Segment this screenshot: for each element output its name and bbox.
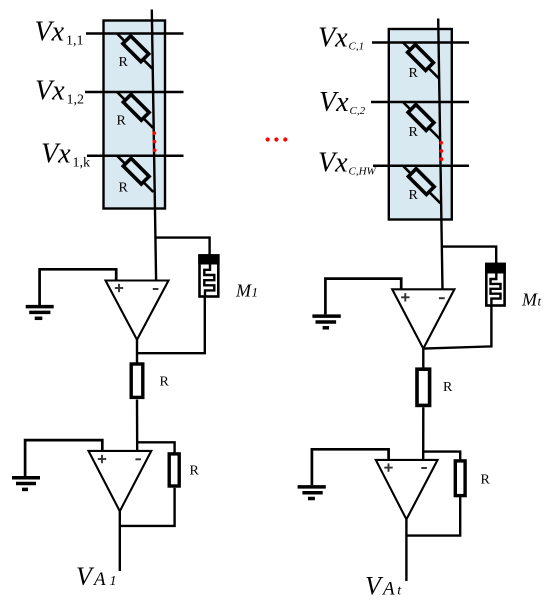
wire: op-amp U1 plus input to ground	[40, 269, 117, 305]
label M1	[235, 281, 258, 301]
svg-text:1,1: 1,1	[66, 34, 84, 49]
red vertical ellipsis dots (column 1)	[152, 131, 156, 152]
value label R (col1 row1)	[119, 55, 129, 70]
label Vx1,2	[35, 75, 84, 107]
memristive cell resistor (colt row1)	[403, 43, 439, 79]
label VxC,2	[319, 87, 366, 118]
value label R (U3 output)	[443, 380, 453, 395]
memristive cell resistor (col1 row1)	[117, 34, 152, 69]
svg-text:Vx: Vx	[318, 147, 348, 178]
minus pin U2	[135, 458, 141, 460]
row line VxC,1	[372, 41, 469, 44]
svg-text:1: 1	[110, 574, 117, 589]
svg-text:R: R	[117, 114, 127, 129]
label VA1	[76, 562, 117, 591]
svg-text:R: R	[409, 125, 419, 140]
label Vx1,k	[41, 138, 90, 170]
svg-text:Vx: Vx	[35, 17, 65, 48]
wire: Mt bottom to op-amp U3 output node	[423, 306, 491, 349]
wire: op-amp U2 plus input to ground	[25, 440, 102, 476]
svg-text:R: R	[409, 66, 419, 81]
svg-text:Vx: Vx	[35, 75, 65, 106]
resistor R (U1 output)	[131, 364, 143, 397]
ground (U4 plus)	[298, 487, 326, 499]
svg-text:C,HW: C,HW	[349, 165, 377, 177]
svg-text:1,2: 1,2	[67, 92, 85, 107]
row line Vx1,k	[87, 154, 184, 157]
svg-text:1: 1	[252, 285, 259, 300]
row line Vx1,2	[85, 91, 184, 94]
svg-text:Vx: Vx	[318, 23, 348, 54]
op-amp U1	[106, 281, 169, 340]
svg-text:M: M	[235, 281, 252, 301]
memristive cell resistor (col1 row2)	[117, 92, 153, 128]
red ellipsis between columns	[266, 137, 288, 141]
feedback wire U4 (minus node to resistor)	[423, 452, 460, 466]
label Vx1,1	[35, 17, 84, 49]
feedback resistor R (U4)	[455, 461, 465, 496]
value label R (col1 row3)	[119, 181, 129, 196]
svg-text:Vx: Vx	[319, 87, 349, 118]
svg-text:A: A	[381, 578, 395, 599]
ground (U3 plus)	[312, 316, 340, 328]
label VxC,HW	[318, 147, 377, 178]
svg-text:C,2: C,2	[350, 105, 366, 117]
output wire VAt	[405, 519, 407, 581]
svg-text:C,1: C,1	[349, 41, 365, 53]
svg-text:R: R	[190, 464, 200, 479]
svg-text:R: R	[443, 380, 453, 395]
plus pin U1	[115, 284, 123, 292]
wire: U3 output down to resistor	[422, 349, 424, 369]
wire: resistor to U4 minus input	[422, 407, 424, 460]
column line (bit line, column 1)	[152, 10, 156, 281]
svg-text:R: R	[409, 188, 419, 203]
resistor R (U3 output)	[417, 369, 430, 405]
svg-text:Vx: Vx	[41, 138, 71, 169]
plus pin U2	[98, 455, 106, 463]
output wire VA1	[119, 511, 121, 571]
wire: column 1 to memristor M1 top	[155, 238, 209, 256]
svg-text:R: R	[119, 181, 129, 196]
svg-text:R: R	[119, 55, 129, 70]
wire: M1 bottom to op-amp U1 output node	[137, 297, 205, 354]
memristor Mt	[485, 263, 506, 306]
minus pin U3	[439, 297, 445, 299]
wire: column t to memristor Mt top	[442, 247, 496, 264]
svg-text:R: R	[160, 375, 170, 390]
row line Vx1,1	[86, 32, 184, 35]
value label R (U1 output)	[160, 375, 170, 390]
plus pin U4	[384, 463, 392, 471]
value label R (colt row2)	[409, 125, 419, 140]
wire: op-amp U3 plus input to ground	[325, 279, 401, 315]
value label R (col1 row2)	[117, 114, 127, 129]
op-amp U2	[89, 451, 152, 511]
svg-text:A: A	[92, 569, 106, 590]
svg-text:R: R	[481, 473, 491, 488]
memristive cell resistor (col1 row3)	[117, 156, 153, 192]
row line VxC,HW	[373, 165, 469, 168]
memristive cell resistor (colt row3)	[403, 166, 441, 204]
wire: feedback resistor bottom to U2 output	[120, 488, 175, 526]
memristor M1	[198, 254, 219, 296]
minus pin U4	[421, 467, 427, 469]
svg-text:1,k: 1,k	[73, 155, 91, 170]
feedback wire U2 (minus node to resistor to output)	[137, 442, 174, 460]
op-amp U3	[392, 289, 454, 348]
svg-text:t: t	[397, 583, 402, 598]
svg-text:V: V	[365, 571, 384, 600]
label VAt	[365, 571, 402, 600]
wire: resistor to U2 minus input	[136, 400, 139, 451]
red vertical ellipsis dots (column t)	[439, 141, 443, 161]
row line VxC,2	[371, 101, 469, 104]
value label R (U4 feedback)	[481, 473, 491, 488]
svg-text:M: M	[521, 290, 538, 310]
wire: U1 output down to resistor	[136, 340, 138, 364]
svg-text:t: t	[538, 294, 542, 309]
value label R (U2 feedback)	[190, 464, 200, 479]
column line (bit line, column t)	[438, 19, 442, 290]
minus pin U1	[153, 288, 159, 290]
feedback resistor R (U2)	[169, 454, 179, 486]
label Mt	[521, 290, 542, 310]
memristive cell resistor (colt row2)	[403, 102, 440, 139]
value label R (colt row1)	[409, 66, 419, 81]
svg-text:V: V	[76, 562, 95, 591]
label VxC,1	[318, 23, 364, 54]
plus pin U3	[401, 293, 409, 301]
wire: op-amp U4 plus input to ground	[312, 449, 389, 485]
crossbar array box (column t)	[389, 29, 452, 220]
op-amp U4	[376, 460, 438, 520]
value label R (colt row3)	[409, 188, 419, 203]
crossbar array box (column 1)	[104, 21, 166, 209]
ground (U1 plus)	[26, 307, 54, 319]
wire: feedback resistor bottom to U4 output	[406, 497, 460, 535]
ground (U2 plus)	[12, 478, 40, 490]
